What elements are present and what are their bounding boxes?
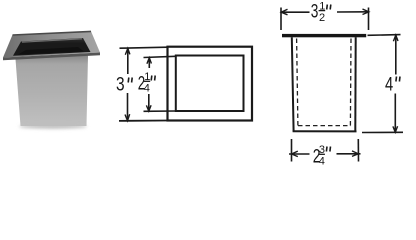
dimension line 4" (vertical, interrupted by label) — [395, 35, 397, 75]
dimension 2 1/4" arrowhead down — [146, 105, 151, 111]
label 4" inch marks — [395, 77, 398, 82]
top view: extension line (inner, bottom) — [144, 110, 176, 112]
side view: left wall — [292, 37, 294, 131]
side view: right wall — [354, 37, 356, 131]
side view: extension line left (for 2 3/4") — [291, 139, 293, 162]
svg-text:4: 4 — [319, 156, 325, 168]
photo: flange top surface — [3, 31, 100, 57]
svg-text:3: 3 — [311, 1, 319, 22]
side view: hidden inner wall left (dashed) — [297, 39, 298, 126]
dimension 3 1/2" arrowhead left — [281, 9, 287, 15]
svg-text:3: 3 — [116, 75, 125, 96]
photo: interior back-wall glint — [22, 39, 82, 42]
label 2 3/4" inch marks — [325, 147, 328, 152]
photo: box body (front face) — [16, 56, 89, 127]
side view: extension line left (for 3 1/2") — [280, 8, 282, 31]
side view: hidden inner bottom (dashed) — [298, 125, 351, 127]
top view: extension line (outer, top) — [120, 47, 168, 48]
label 3 1/2" fraction bar — [319, 10, 326, 12]
dimension 2 3/4" arrowhead right — [352, 151, 358, 157]
top view: inner square — [176, 56, 244, 112]
label 2 1/4" inch marks — [150, 76, 153, 81]
photo: box drop shadow — [19, 124, 87, 128]
photo: box interior (dark opening) — [13, 38, 91, 56]
dimension 2 1/4" arrowhead up — [147, 58, 152, 64]
side view: extension line bottom (for 4") — [362, 131, 403, 133]
side view: hidden inner wall right (dashed) — [349, 39, 352, 126]
dimension 3 1/2" arrowhead right — [363, 9, 369, 15]
label 3" inch marks — [127, 78, 130, 83]
label 2 1/4" fraction bar — [144, 80, 151, 82]
top view: outer square — [168, 47, 253, 121]
dimension line 3 1/2" (horizontal) — [281, 11, 310, 13]
dimension 2 3/4" arrowhead left — [292, 151, 298, 157]
label 2 3/4" fraction bar — [318, 153, 325, 155]
side view: bottom — [293, 130, 357, 132]
photo: flange back edge — [13, 31, 92, 35]
dimension line 3" (vertical, interrupted by label) — [127, 48, 129, 74]
top view: extension line (inner, top) — [144, 56, 176, 57]
dimension line 2 1/4" (vertical, interrupted by label) — [148, 58, 150, 69]
svg-text:2: 2 — [319, 12, 325, 24]
label 3 1/2" inch marks — [326, 5, 329, 10]
side view: flange (filled bar) — [282, 34, 366, 37]
dimension 3" arrowhead down — [125, 114, 130, 121]
side view: extension line right (for 2 3/4") — [357, 139, 359, 162]
photo: interior bottom reflection — [18, 47, 84, 55]
dimension 4" arrowhead down — [393, 126, 398, 132]
dimension line 2 3/4" (horizontal) — [289, 153, 310, 155]
side view: extension line right (for 3 1/2") — [368, 8, 370, 31]
dimension 4" arrowhead up — [393, 35, 398, 41]
photo: flange front edge (underside band) — [3, 53, 100, 61]
top view: extension line (outer, bottom) — [119, 120, 167, 122]
side view: extension line top (for 4") — [368, 34, 401, 37]
dimension 3" arrowhead up — [125, 48, 130, 54]
svg-text:4: 4 — [144, 83, 150, 95]
svg-text:4: 4 — [385, 74, 394, 95]
